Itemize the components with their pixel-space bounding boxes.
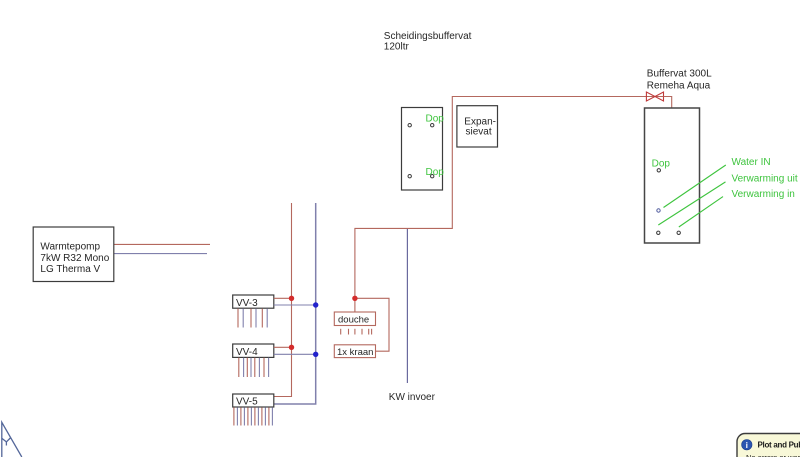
svg-text:Verwarming uit: Verwarming uit [732,174,798,185]
warmtepomp unit [33,227,114,282]
junction dot blue VV-3 [313,302,318,307]
buffervat tank [645,108,700,243]
svg-text:Plot and Publish Job Complete: Plot and Publish Job Complete [758,441,800,450]
svg-text:Buffervat 300L: Buffervat 300L [647,69,712,80]
douche spray dashes [341,329,372,335]
svg-text:VV-3: VV-3 [236,298,258,309]
manifold VV-4 [233,344,274,358]
buffervat port 2 [657,209,660,212]
wire: VV-3 return stub (blue) [274,304,316,306]
svg-text:Remeha Aqua: Remeha Aqua [647,81,711,92]
plot and publish balloon [737,434,800,457]
junction dot blue VV-4 [313,352,318,357]
svg-text:1x kraan: 1x kraan [337,347,373,358]
svg-text:Dop: Dop [652,158,671,169]
svg-text:Dop: Dop [426,114,445,125]
wire: valve to buffervat (red) [664,97,672,109]
buffervat port 4 [677,231,680,234]
svg-text:douche: douche [338,315,369,326]
junction dot red VV-4 [289,345,294,350]
VV-4 loops comb [239,358,269,377]
scheidingsbuffervat tank [402,108,443,191]
wire: VV-3 supply stub (red) [274,297,292,299]
wire: warm water main (red) from scheidingsbuffervat to douche [355,97,664,313]
VV-3 loops comb [238,309,267,328]
svg-text:KW invoer: KW invoer [389,392,436,403]
svg-text:VV-4: VV-4 [236,347,258,358]
svg-text:No errors or warnings found: No errors or warnings found [746,453,800,457]
valve (red bowtie) [646,92,663,101]
tank ports bottom [408,175,411,178]
junction dot red VV-3 [289,296,294,301]
expansievat [457,106,498,147]
label Buffervat 300L Remeha Aqua [647,69,712,92]
wire: warmtepomp supply (red) [114,243,210,245]
wire: warmtepomp return (blue) [114,253,207,255]
douche box [334,312,375,326]
buffervat port 3 [657,231,660,234]
tank ports top [408,124,411,127]
green labels [732,157,798,200]
wire: VV-4 supply stub (red) [274,346,292,348]
leader line Verwarming uit (green) [658,182,725,225]
svg-text:i: i [746,440,748,450]
wire: VV-4 return stub (blue) [274,353,316,355]
svg-text:120ltr: 120ltr [384,41,410,52]
wire: KW invoer (blue) [406,229,408,383]
svg-text:Water IN: Water IN [732,157,771,168]
kraan box [334,345,375,358]
svg-text:VV-5: VV-5 [236,397,258,408]
wire: warm water branch to kraan (red) [355,298,389,351]
manifold VV-5 [233,394,274,408]
svg-text:sievat: sievat [466,126,492,137]
manifold VV-3 [233,295,274,309]
buffervat port 1 [657,169,660,172]
leader line Water IN (green) [664,165,726,208]
wire: CV supply riser (red) [274,203,292,397]
junction dot red douche [352,296,357,301]
svg-text:7kW R32 Mono: 7kW R32 Mono [40,253,109,264]
svg-text:Verwarming in: Verwarming in [732,189,795,200]
leader line Verwarming in (green) [679,197,723,227]
svg-text:Warmtepomp: Warmtepomp [40,242,100,253]
VV-5 loops comb [234,407,273,425]
svg-text:Dop: Dop [426,167,445,178]
label Scheidingsbuffervat [384,31,472,52]
svg-text:LG Therma V: LG Therma V [40,264,100,275]
north arrow (UCS icon) [2,422,22,457]
wire: CV return riser (blue) [274,203,316,404]
